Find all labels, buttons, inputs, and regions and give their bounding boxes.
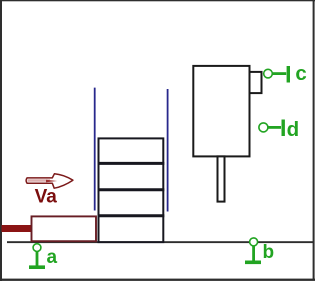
- velocity arrow Va: [26, 174, 73, 188]
- sensor b base: [245, 260, 261, 264]
- sensor a stem: [36, 252, 39, 266]
- frame right border: [313, 0, 315, 280]
- frame left border: [0, 0, 2, 281]
- stack divider 1: [98, 162, 165, 165]
- sensor b circle: [250, 238, 258, 246]
- arrow shaft pink interior: [28, 179, 51, 182]
- sensor a base: [29, 265, 45, 269]
- sensor c stem: [272, 72, 286, 75]
- stack divider 3: [98, 214, 165, 217]
- svg-text:Va: Va: [35, 187, 58, 208]
- sensor d circle: [259, 123, 268, 132]
- machine side notch: [250, 72, 262, 93]
- sensor d stem: [268, 126, 281, 129]
- red box: [32, 216, 97, 241]
- frame bottom border: [0, 279, 315, 281]
- arrow shaft end wedge: [46, 180, 57, 183]
- machine leg: [218, 156, 225, 201]
- sensor d bar: [282, 120, 285, 137]
- ground line: [7, 241, 314, 243]
- sensor c bar: [287, 66, 290, 83]
- svg-text:b: b: [263, 242, 275, 263]
- frame top border: [0, 0, 315, 1]
- svg-text:a: a: [47, 247, 58, 268]
- svg-text:d: d: [287, 118, 300, 141]
- blue guide line left: [94, 88, 96, 211]
- stack outer box: [99, 138, 164, 242]
- blue guide line right: [167, 89, 169, 212]
- red pusher rod: [2, 225, 32, 232]
- stack divider 2: [98, 188, 165, 191]
- svg-text:c: c: [295, 62, 306, 85]
- sensor b stem: [252, 246, 255, 261]
- sensor c circle: [264, 69, 273, 78]
- sensor a circle: [33, 244, 41, 252]
- machine body rectangle: [193, 66, 249, 156]
